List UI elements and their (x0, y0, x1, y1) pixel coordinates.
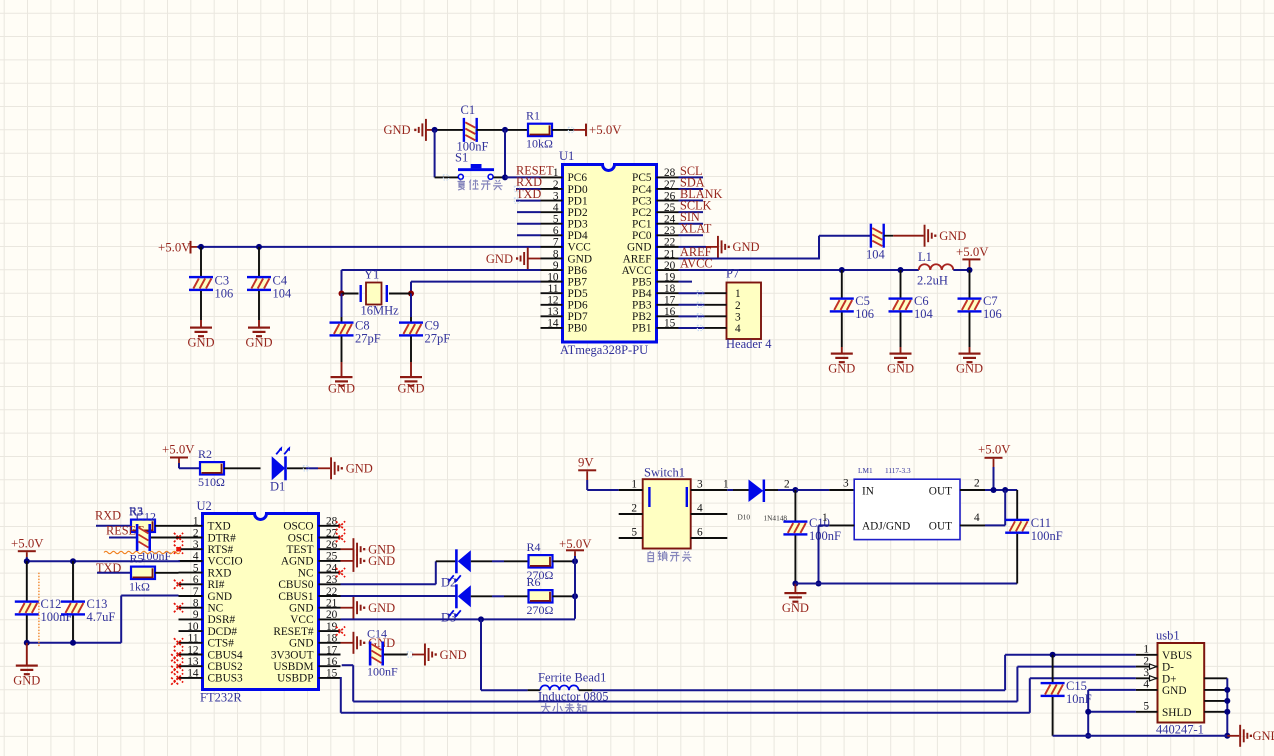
wire +5V rail vertical (574, 556, 576, 619)
U2 pin 23 CBUS0 (319, 583, 341, 585)
svg-text:L1: L1 (918, 250, 932, 264)
node R4/+5V (572, 558, 578, 564)
svg-text:11: 11 (548, 283, 559, 295)
svg-text:C7: C7 (983, 294, 998, 308)
svg-text:16: 16 (326, 656, 338, 668)
svg-text:GND: GND (627, 242, 651, 254)
wire ground rail to U2 GND pin7 (27, 642, 121, 644)
wire CBUS0 to D2 (341, 583, 436, 585)
svg-text:XLAT: XLAT (680, 222, 712, 236)
svg-text:Switch1: Switch1 (644, 466, 685, 480)
svg-text:PC0: PC0 (632, 230, 652, 242)
U2 pin 18 GND (319, 642, 341, 644)
capacitor C1 (463, 118, 478, 142)
wire C12 to U2 pin2 (151, 537, 179, 539)
node C12 top (24, 558, 30, 564)
wire R1 to +5.0V (552, 129, 574, 131)
wire CBUS1 to D3 (341, 595, 457, 597)
U2 pin 10 DCD# (179, 630, 203, 632)
U2 pin 25 AGND (319, 560, 341, 562)
svg-text:20: 20 (326, 609, 338, 621)
U1 pin 1 PC6 (541, 176, 563, 178)
U2 pin 13 CBUS2 (179, 665, 203, 667)
wire USBDM from U2 pin16 (342, 664, 354, 666)
svg-text:RXD: RXD (208, 567, 232, 579)
wire +5V to R2 (178, 463, 180, 468)
wire C3 to ground (200, 291, 202, 320)
svg-text:25: 25 (326, 551, 338, 563)
no-connect X U2 pin 28 (336, 521, 345, 530)
svg-text:1: 1 (735, 288, 741, 300)
U2 pin 28 OSCO (319, 525, 341, 527)
svg-text:9V: 9V (578, 456, 594, 470)
wire stubs PD2 PD3 PD4 (517, 211, 541, 213)
svg-text:2: 2 (1143, 655, 1149, 667)
svg-text:4: 4 (697, 503, 703, 515)
svg-text:1117-3.3: 1117-3.3 (885, 466, 911, 475)
svg-text:13: 13 (547, 306, 559, 318)
diode D10 1N4148 (749, 480, 766, 503)
svg-text:100nF: 100nF (809, 529, 841, 543)
svg-text:VBUS: VBUS (1162, 650, 1192, 662)
capacitor C5 (830, 297, 854, 312)
svg-text:9: 9 (193, 609, 199, 621)
svg-text:15: 15 (664, 318, 676, 330)
wire crystal left (342, 293, 359, 295)
svg-text:OUT: OUT (929, 521, 952, 533)
svg-text:C3: C3 (215, 274, 230, 288)
svg-text:GND: GND (208, 591, 232, 603)
capacitor C10 100nF (783, 520, 807, 535)
node SHLD tee (1085, 709, 1091, 715)
svg-text:8: 8 (193, 598, 199, 610)
svg-text:USBDM: USBDM (273, 661, 313, 673)
svg-text:PB0: PB0 (568, 323, 588, 335)
svg-text:SHLD: SHLD (1162, 707, 1192, 719)
svg-text:3: 3 (735, 311, 741, 323)
svg-text:100nF: 100nF (1031, 529, 1063, 543)
svg-text:10kΩ: 10kΩ (526, 136, 553, 150)
svg-text:GND: GND (384, 123, 411, 137)
svg-text:+5.0V: +5.0V (559, 537, 592, 551)
Switch1 pin 2 (619, 513, 643, 515)
svg-text:PD0: PD0 (568, 184, 588, 196)
svg-text:D1: D1 (270, 479, 285, 493)
svg-text:PB4: PB4 (632, 288, 652, 300)
svg-text:26: 26 (326, 539, 338, 551)
svg-text:C1: C1 (461, 103, 476, 117)
U1 pin 27 PC4 (657, 188, 679, 190)
U2 pin 12 CBUS4 (179, 654, 203, 656)
svg-text:IN: IN (862, 486, 874, 498)
wire net SCL (679, 176, 704, 178)
svg-text:AVCC: AVCC (680, 256, 713, 270)
power port +5.0V (led rail) (559, 537, 592, 556)
U2 pin 15 USBDP (319, 677, 341, 679)
svg-text:GND: GND (887, 362, 914, 376)
wire TXD to R5 (97, 572, 131, 574)
capacitor C8 27pF (341, 317, 343, 322)
node shield bus (1224, 709, 1230, 715)
svg-text:+5.0V: +5.0V (589, 123, 622, 137)
svg-text:R1: R1 (526, 108, 540, 122)
svg-text:510Ω: 510Ω (198, 475, 225, 489)
svg-text:18: 18 (326, 633, 338, 645)
wire RXD (516, 188, 541, 190)
node +5V/out (991, 487, 997, 493)
svg-text:RTS#: RTS# (208, 544, 234, 556)
wire R6 to +5V rail (553, 595, 576, 597)
svg-text:CBUS2: CBUS2 (208, 661, 244, 673)
U1 pin 24 PC1 (657, 223, 679, 225)
svg-text:R6: R6 (527, 575, 541, 589)
wire to ground (26, 643, 28, 665)
power port GND (top left, at C1) (384, 119, 435, 141)
usb1 shield pins right (1204, 677, 1227, 679)
wires U1 to P7 (679, 292, 705, 294)
U1 pin 11 PD5 (541, 292, 563, 294)
Switch1 pin 3 (691, 489, 728, 491)
svg-text:+5.0V: +5.0V (956, 245, 989, 259)
capacitor C4 (247, 276, 271, 291)
wire net SCLK (679, 211, 704, 213)
svg-text:10: 10 (547, 271, 559, 283)
wire stub pin 19 (679, 281, 693, 283)
svg-text:4: 4 (1143, 679, 1149, 691)
inductor Ferrite Bead1 (540, 685, 578, 690)
wire TXD (516, 200, 541, 202)
regulator LM1 1117-3.3 body (854, 479, 960, 539)
wire to C4 (258, 247, 260, 276)
wire down to ferrite bead (480, 619, 482, 690)
svg-text:106: 106 (215, 287, 234, 301)
svg-text:GND: GND (289, 638, 313, 650)
wire AREF to C2 (679, 257, 820, 259)
P7 pin 3 (704, 315, 726, 317)
power port +5.0V (R2) (162, 443, 195, 464)
capacitor C12 100nF (15, 600, 39, 615)
svg-text:GND: GND (956, 362, 983, 376)
svg-text:PD6: PD6 (568, 300, 588, 312)
svg-text:5: 5 (193, 562, 199, 574)
wire PB6 to crystal (342, 269, 541, 271)
wire C13 bottom (72, 616, 74, 643)
wire node to LM1117 IN (795, 489, 829, 491)
power port GND (U2 pin 21) (341, 597, 396, 619)
U2 pin 9 DSR# (179, 618, 203, 620)
svg-text:1: 1 (723, 479, 729, 491)
svg-text:GND: GND (486, 252, 513, 266)
wire PB7 to crystal (411, 281, 541, 283)
U1 pin 18 PB4 (657, 292, 679, 294)
wire node down to C10 (794, 490, 796, 521)
svg-text:OSCI: OSCI (288, 532, 314, 544)
svg-text:7: 7 (553, 237, 559, 249)
svg-text:2: 2 (193, 527, 199, 539)
svg-text:17: 17 (664, 295, 676, 307)
U2 pin 21 GND (319, 607, 341, 609)
wire C14 right to GND (384, 654, 408, 656)
wire USBDP from U2 pin15 (340, 677, 342, 713)
wire C15 to bottom rail (1052, 697, 1054, 736)
power port +5.0V (right of L1) (956, 245, 989, 270)
wire C7 to ground (969, 313, 971, 348)
svg-text:PB6: PB6 (568, 265, 588, 277)
Switch1 pin 4 (691, 513, 728, 515)
node bottom rail tee (1085, 733, 1091, 739)
U1 pin 9 PB6 (541, 269, 563, 271)
wire L1 right (953, 269, 969, 271)
U1 pin 6 PD4 (541, 234, 563, 236)
svg-text:GND: GND (568, 253, 592, 265)
svg-text:C6: C6 (914, 294, 929, 308)
power port 9V (578, 456, 596, 481)
gnd rail wire (795, 583, 1017, 585)
svg-text:NC: NC (208, 603, 224, 615)
svg-text:GND: GND (782, 601, 809, 615)
svg-text:RESET#: RESET# (273, 626, 314, 638)
svg-text:104: 104 (273, 287, 293, 301)
U1 pin 19 PB5 (657, 281, 679, 283)
resistor R2 510 (198, 447, 225, 489)
wire S1 contacts (435, 176, 458, 178)
label reset switch (chinese) (458, 180, 503, 191)
wire bead to VBUS (579, 689, 593, 691)
op U2 FT232R body (203, 514, 319, 690)
svg-text:+5.0V: +5.0V (162, 443, 195, 457)
svg-text:16MHz: 16MHz (361, 303, 400, 317)
power port GND (C14) (412, 644, 467, 666)
svg-text:Header 4: Header 4 (726, 337, 772, 351)
U2 pin 4 VCCIO (179, 560, 203, 562)
resistor R5 1k (129, 567, 155, 594)
svg-text:5: 5 (631, 527, 637, 539)
erc squiggle (104, 551, 180, 553)
led D1 (272, 446, 291, 480)
connector P7 Header 4 (727, 283, 762, 340)
label self-lock switch (chinese) (648, 551, 692, 562)
P7 pin 2 (704, 304, 726, 306)
svg-text:GND: GND (1162, 685, 1186, 697)
wire OUT2 to C11 (985, 489, 1017, 491)
svg-text:TEST: TEST (287, 544, 314, 556)
ground (C4) (245, 327, 272, 350)
svg-text:5: 5 (553, 214, 559, 226)
svg-text:2: 2 (553, 179, 559, 191)
svg-text:C12: C12 (41, 597, 62, 611)
wire bottom rail (1053, 735, 1228, 737)
svg-text:3: 3 (697, 479, 703, 491)
svg-text:TXD: TXD (208, 521, 231, 533)
U2 pin 3 RTS# (179, 548, 203, 550)
svg-text:PD2: PD2 (568, 207, 588, 219)
svg-text:PC3: PC3 (632, 195, 652, 207)
led D2 (448, 549, 471, 583)
U1 pin 3 PD1 (541, 200, 563, 202)
svg-text:OUT: OUT (929, 486, 952, 498)
svg-text:15: 15 (326, 668, 338, 680)
svg-text:4: 4 (735, 323, 741, 335)
capacitor C11 100nF (1005, 519, 1029, 534)
svg-text:27pF: 27pF (425, 332, 451, 346)
wire C5 to ground (841, 313, 843, 348)
svg-text:2: 2 (631, 503, 637, 515)
svg-text:100nF: 100nF (367, 665, 398, 679)
U1 pin 14 PB0 (541, 327, 563, 329)
svg-text:D10: D10 (738, 513, 751, 522)
U1 pin 28 PC5 (657, 176, 679, 178)
node ADJ/gnd rail (816, 581, 822, 587)
node C13 top (70, 558, 76, 564)
wire C11 to gnd rail (1016, 534, 1018, 584)
svg-text:9: 9 (553, 260, 559, 272)
no-connect X U2 pin 11 (174, 638, 183, 647)
wire crystal right (389, 293, 411, 295)
svg-text:7: 7 (193, 586, 199, 598)
wire R4 to +5V rail (553, 560, 576, 562)
svg-text:+5.0V: +5.0V (158, 241, 191, 255)
wire VCC pin20 (341, 618, 576, 620)
usb1 pin 5 SHLD (1136, 711, 1158, 713)
svg-text:PD1: PD1 (568, 195, 588, 207)
U2 pin 27 OSCI (319, 537, 341, 539)
svg-text:27pF: 27pF (355, 332, 381, 346)
usb1 pin 1 VBUS (1136, 654, 1158, 656)
svg-text:D3: D3 (441, 611, 456, 625)
svg-text:25: 25 (664, 202, 676, 214)
svg-text:DTR#: DTR# (208, 532, 237, 544)
power port +5.0V (left) (11, 537, 44, 558)
wire gnd to earth (794, 584, 796, 593)
svg-text:U1: U1 (559, 149, 574, 163)
svg-text:USBDP: USBDP (277, 673, 313, 685)
wire C4 to ground (258, 291, 260, 320)
no-connect X U2 pin 6 (174, 580, 183, 589)
U1 pin 23 PC0 (657, 234, 679, 236)
node shield bus (1224, 687, 1230, 693)
U2 pin 26 TEST (319, 548, 341, 550)
svg-text:14: 14 (547, 318, 559, 330)
orange selection line (38, 573, 40, 647)
node AVCC/C6 (898, 267, 904, 273)
svg-text:21: 21 (326, 598, 337, 610)
usb1 pin 4 GND (1136, 689, 1158, 691)
svg-text:OSCO: OSCO (283, 521, 313, 533)
node D10/C10/IN (792, 487, 798, 493)
wire D3 to R6 (471, 595, 492, 597)
svg-text:+5.0V: +5.0V (11, 537, 44, 551)
power port GND (U2 pin 26) (341, 538, 396, 560)
wire VBUS down through C15 (1052, 655, 1054, 682)
wire to C5 (841, 270, 843, 298)
svg-text:C9: C9 (425, 319, 440, 333)
svg-text:VCC: VCC (290, 614, 313, 626)
capacitor C7 (958, 297, 982, 312)
wire R5 to U2 pin5 (155, 572, 179, 574)
node shield bus (1224, 733, 1230, 739)
capacitor C9 27pF (410, 317, 412, 322)
wire D10 to C10 node (765, 489, 778, 491)
led D3 (448, 584, 471, 618)
no-connect X U2 pin 2 (174, 533, 183, 542)
ground (regulator) (782, 592, 809, 615)
wire RESET (505, 176, 541, 178)
U2 pin 14 CBUS3 (179, 677, 203, 679)
svg-text:GND: GND (440, 648, 467, 662)
U1 pin 22 GND (657, 246, 679, 248)
U2 pin 20 VCC (319, 618, 341, 620)
inductor L1 (919, 264, 954, 270)
svg-text:CBUS4: CBUS4 (208, 649, 244, 661)
svg-text:27: 27 (664, 179, 676, 191)
svg-text:GND: GND (368, 601, 395, 615)
node ferrite branch (478, 616, 484, 622)
svg-text:GND: GND (245, 336, 272, 350)
svg-text:C12: C12 (136, 510, 156, 524)
wire ferrite bead left (481, 689, 528, 691)
svg-text:3: 3 (843, 478, 849, 490)
svg-text:1: 1 (193, 516, 199, 528)
svg-text:GND: GND (397, 382, 424, 396)
wire RESET to C12 (109, 537, 137, 539)
svg-text:440247-1: 440247-1 (1156, 723, 1204, 737)
svg-text:PC6: PC6 (568, 172, 588, 184)
power port GND (U2 pin 18) (341, 632, 396, 654)
svg-text:20: 20 (664, 260, 676, 272)
wire 9V to Switch1 (586, 480, 588, 490)
svg-text:17: 17 (326, 644, 338, 656)
svg-text:12: 12 (547, 295, 559, 307)
crystal Y1 (360, 283, 389, 305)
U1 pin 16 PB2 (657, 315, 679, 317)
ground (C5) (828, 353, 855, 376)
svg-text:PC1: PC1 (632, 219, 651, 231)
node AVCC/C5 (839, 267, 845, 273)
label size unknown (chinese) (541, 703, 586, 713)
node at GND/C1/S1 (432, 127, 438, 133)
wire C1 right to R1 (477, 129, 528, 131)
node S1 right (502, 174, 508, 180)
svg-text:C11: C11 (1031, 516, 1051, 530)
svg-text:28: 28 (664, 167, 676, 179)
wire to C3 (200, 247, 202, 276)
Switch1 pin 6 (691, 537, 728, 539)
switch S1 (458, 164, 494, 179)
node R6/+5V (572, 593, 578, 599)
node at C1/R1/S1 (502, 127, 508, 133)
wire RXD to R3 (96, 525, 131, 527)
wire AVCC rail (679, 269, 919, 271)
wire Switch1 to D10 (727, 489, 733, 491)
switch contacts (648, 487, 650, 507)
svg-text:CBUS1: CBUS1 (278, 591, 313, 603)
svg-text:106: 106 (983, 307, 1002, 321)
wire OUT4 riser (985, 524, 1005, 526)
no-connect X U2 pin 13 (174, 662, 183, 671)
node crystal left (339, 291, 345, 297)
svg-text:C5: C5 (855, 294, 870, 308)
svg-text:CBUS0: CBUS0 (278, 579, 314, 591)
svg-text:104: 104 (914, 307, 934, 321)
Switch1 pin 5 (619, 537, 643, 539)
svg-text:AVCC: AVCC (622, 265, 652, 277)
svg-text:P7: P7 (726, 267, 739, 281)
svg-text:FT232R: FT232R (200, 691, 242, 705)
resistor R3 (129, 504, 155, 532)
wire usb GND to bus (1088, 689, 1136, 691)
wire to C6 (900, 270, 902, 298)
wire S1 right vertical (504, 130, 506, 178)
